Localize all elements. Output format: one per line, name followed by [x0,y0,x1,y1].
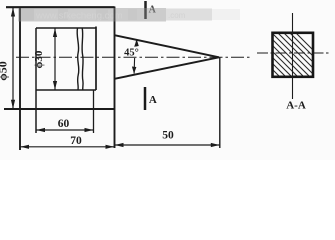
arrowhead 45deg up [134,39,139,47]
inner bore rectangle right edge [95,27,97,91]
cone (pyramid) bottom slant line [115,57,220,79]
watermark band [18,8,240,22]
arrowhead 50 left [115,143,124,147]
arrowhead 50 right [211,143,220,147]
45-degree angle leader lower [133,58,136,74]
arrowhead phi30 top [53,28,57,37]
dimension line 50 [115,144,220,146]
cone (pyramid) top slant line [115,35,220,57]
svg-text:60: 60 [58,118,70,130]
wavy break line 1 [77,28,79,90]
main horizontal centerline [16,56,252,58]
dimension line 60 [36,129,94,131]
A-A vertical centerline and leader [292,13,294,99]
outer cylinder outline top edge [6,6,115,8]
arrowhead 60 left [36,128,45,132]
wavy break line 2 [82,28,83,90]
section cutting mark A bottom stroke [144,87,147,110]
arrowhead phi50 top [11,8,15,17]
arrowhead 60 right [85,128,94,132]
arrowhead 70 right [106,145,115,149]
apex vertical extension line (50-dim right extension) [219,57,221,148]
A-A horizontal centerline [257,52,331,54]
arrowhead 45deg down [132,67,137,74]
dimension line phi30 [54,28,56,90]
hatching of A-A square [230,27,335,81]
dimension line phi50 [12,7,14,109]
inner bore rectangle bottom edge [36,89,96,91]
section view A-A hatched square [230,13,335,112]
watermark dimming overlay applied later [4,7,252,151]
svg-text:ϕ30: ϕ30 [33,50,45,68]
inner bore rectangle left edge (extends down as 60-dim extension) [35,28,37,133]
inner bore rectangle top edge [36,27,96,29]
outer cylinder outline right edge (extends down as 70/50-dim extension) [114,7,116,149]
arrowhead 70 left [20,145,29,149]
watermark dim overlay [18,8,166,22]
svg-text:.com: .com [168,11,186,20]
svg-text:A-A: A-A [286,100,306,112]
outer cylinder outline bottom edge [4,108,115,110]
arrowhead phi30 bottom [53,81,57,90]
svg-text:ϕ50: ϕ50 [0,61,10,81]
outer cylinder outline left edge (extends down as 70-dim extension) [19,7,21,151]
svg-text:50: 50 [162,130,174,142]
svg-text:A: A [149,94,157,106]
section cutting mark A top stroke [144,1,147,19]
A-A square outline [273,33,314,77]
arrowhead phi50 bottom [11,100,15,109]
45-degree angle leader upper [135,40,138,47]
dimension line 70 [20,146,115,148]
svg-text:45°: 45° [124,48,139,59]
60-dim right extension line [93,90,95,133]
svg-text:70: 70 [70,135,82,147]
